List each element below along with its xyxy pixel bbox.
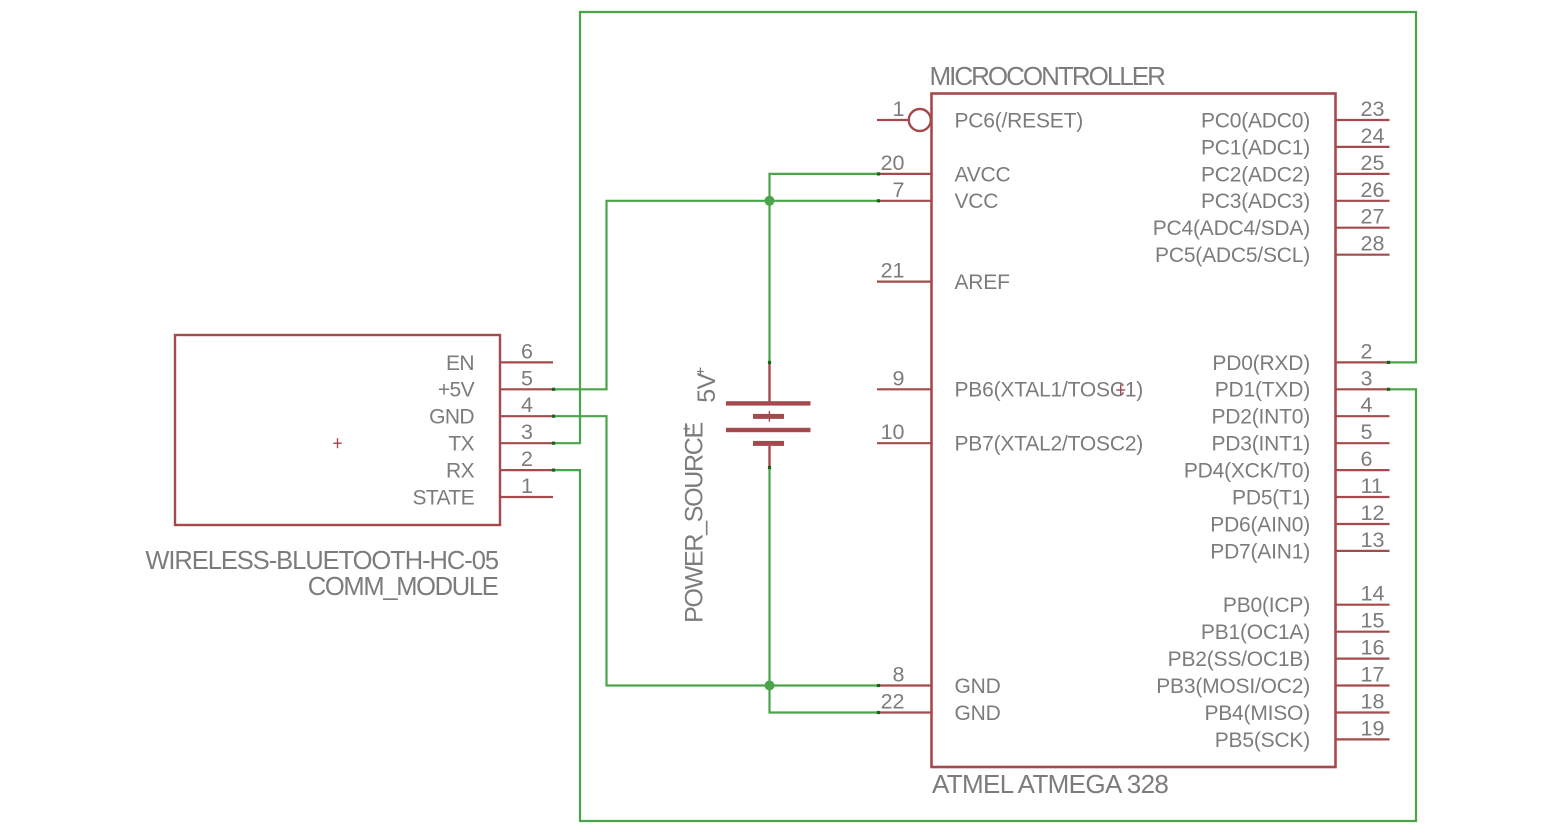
svg-text:PB3(MOSI/OC2): PB3(MOSI/OC2) (1156, 675, 1310, 698)
svg-text:TX: TX (448, 433, 474, 456)
svg-text:VCC: VCC (955, 190, 999, 213)
svg-text:WIRELESS-BLUETOOTH-HC-05: WIRELESS-BLUETOOTH-HC-05 (145, 547, 499, 575)
svg-text:RX: RX (446, 460, 475, 483)
svg-text:11: 11 (1361, 474, 1383, 498)
svg-text:ATMEL ATMEGA 328: ATMEL ATMEGA 328 (932, 769, 1168, 799)
svg-text:8: 8 (893, 663, 905, 687)
svg-text:PB2(SS/OC1B): PB2(SS/OC1B) (1168, 648, 1310, 671)
svg-text:2: 2 (521, 447, 533, 471)
svg-text:9: 9 (893, 366, 905, 390)
svg-text:+5V: +5V (438, 379, 475, 402)
svg-text:25: 25 (1361, 151, 1385, 175)
svg-text:21: 21 (881, 259, 905, 283)
svg-text:PB0(ICP): PB0(ICP) (1223, 594, 1310, 617)
svg-text:PD3(INT1): PD3(INT1) (1211, 433, 1310, 456)
svg-text:1: 1 (893, 97, 905, 121)
svg-text:20: 20 (881, 151, 905, 175)
svg-text:12: 12 (1361, 501, 1385, 525)
svg-text:27: 27 (1361, 205, 1385, 229)
svg-text:10: 10 (881, 420, 905, 444)
svg-text:MICROCONTROLLER: MICROCONTROLLER (930, 61, 1166, 91)
svg-text:GND: GND (429, 406, 474, 429)
svg-text:STATE: STATE (412, 486, 474, 509)
svg-text:AVCC: AVCC (955, 163, 1011, 186)
svg-text:PB4(MISO): PB4(MISO) (1204, 702, 1310, 725)
svg-text:13: 13 (1361, 528, 1385, 552)
svg-text:4: 4 (521, 393, 533, 417)
svg-text:15: 15 (1361, 609, 1385, 633)
svg-text:23: 23 (1361, 97, 1385, 121)
svg-text:AREF: AREF (955, 271, 1010, 294)
svg-text:GND: GND (955, 675, 1001, 698)
svg-text:PC6(/RESET): PC6(/RESET) (955, 109, 1084, 132)
svg-text:PD6(AIN0): PD6(AIN0) (1210, 513, 1310, 536)
svg-text:26: 26 (1361, 178, 1385, 202)
svg-text:PC5(ADC5/SCL): PC5(ADC5/SCL) (1155, 244, 1310, 267)
svg-text:EN: EN (446, 352, 474, 375)
svg-text:6: 6 (521, 339, 533, 363)
svg-text:PD7(AIN1): PD7(AIN1) (1210, 540, 1310, 563)
svg-text:COMM_MODULE: COMM_MODULE (308, 573, 498, 601)
svg-text:PD4(XCK/T0): PD4(XCK/T0) (1184, 460, 1310, 483)
svg-text:PD1(TXD): PD1(TXD) (1215, 379, 1310, 402)
svg-text:22: 22 (881, 690, 905, 714)
svg-text:28: 28 (1361, 232, 1385, 256)
svg-text:PD0(RXD): PD0(RXD) (1212, 352, 1310, 375)
svg-text:14: 14 (1361, 582, 1385, 606)
svg-text:PB7(XTAL2/TOSC2): PB7(XTAL2/TOSC2) (955, 433, 1144, 456)
svg-text:2: 2 (1361, 339, 1373, 363)
svg-text:3: 3 (1361, 366, 1373, 390)
svg-text:5V: 5V (693, 372, 721, 402)
svg-text:POWER_SOURCE: POWER_SOURCE (681, 423, 709, 623)
svg-text:24: 24 (1361, 124, 1385, 148)
svg-text:PD5(T1): PD5(T1) (1232, 486, 1310, 509)
svg-text:6: 6 (1361, 447, 1373, 471)
svg-text:PC0(ADC0): PC0(ADC0) (1201, 109, 1310, 132)
svg-text:19: 19 (1361, 716, 1385, 740)
svg-text:1: 1 (521, 474, 533, 498)
svg-text:PC1(ADC1): PC1(ADC1) (1201, 136, 1310, 159)
svg-text:3: 3 (521, 420, 533, 444)
svg-text:PC2(ADC2): PC2(ADC2) (1201, 163, 1310, 186)
svg-text:18: 18 (1361, 690, 1385, 714)
svg-text:PB1(OC1A): PB1(OC1A) (1201, 621, 1310, 644)
svg-text:GND: GND (955, 702, 1001, 725)
svg-text:5: 5 (521, 366, 533, 390)
svg-text:PB6(XTAL1/TOSC1): PB6(XTAL1/TOSC1) (955, 379, 1144, 402)
svg-text:17: 17 (1361, 663, 1385, 687)
svg-text:PC4(ADC4/SDA): PC4(ADC4/SDA) (1153, 217, 1310, 240)
svg-text:5: 5 (1361, 420, 1373, 444)
svg-text:PB5(SCK): PB5(SCK) (1215, 729, 1310, 752)
svg-text:7: 7 (893, 178, 905, 202)
svg-text:PC3(ADC3): PC3(ADC3) (1201, 190, 1310, 213)
svg-text:PD2(INT0): PD2(INT0) (1211, 406, 1310, 429)
svg-text:16: 16 (1361, 636, 1385, 660)
svg-text:4: 4 (1361, 393, 1373, 417)
